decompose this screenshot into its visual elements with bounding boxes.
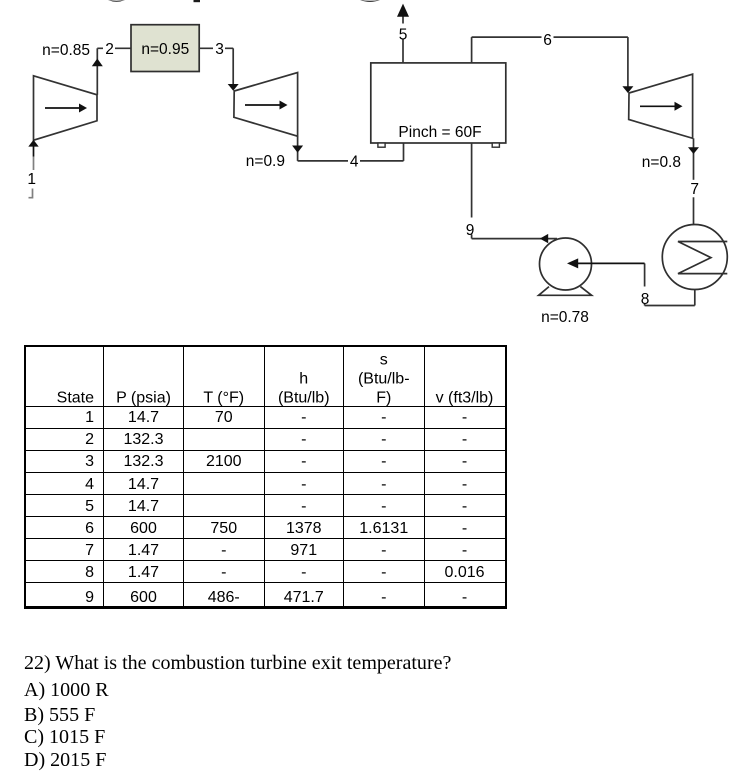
- wire stream 5: exhaust out top of HRSG: [397, 4, 409, 63]
- combustor U1: [131, 25, 199, 72]
- compressor C1: [34, 76, 98, 140]
- wire stream 8: condenser to pump: [567, 258, 695, 305]
- wire stream 4: gas turbine to HRSG: [292, 136, 403, 168]
- condenser HX1: [662, 225, 727, 290]
- svg-text:6: 6: [543, 32, 552, 49]
- cropped heading descenders: [108, 0, 380, 2]
- svg-text:9: 9: [466, 222, 475, 239]
- svg-text:Pinch = 60F: Pinch = 60F: [398, 124, 481, 141]
- svg-text:3: 3: [215, 41, 224, 58]
- pump P1: [540, 238, 592, 290]
- steam turbine internal flow arrow: [640, 102, 683, 111]
- pump stand: [539, 287, 592, 296]
- wire stream 9: pump to HRSG feedwater: [464, 143, 558, 243]
- svg-text:n=0.78: n=0.78: [541, 309, 589, 326]
- HRSG left foot: [378, 143, 385, 147]
- gas turbine T1: [234, 73, 298, 137]
- steam turbine T2: [629, 74, 693, 138]
- svg-text:8: 8: [641, 291, 650, 308]
- compressor C1 internal flow arrow: [45, 104, 87, 113]
- svg-text:7: 7: [690, 181, 699, 198]
- wire stream 7: steam turbine to condenser: [688, 138, 701, 224]
- wire stream 1 into compressor: [28, 140, 38, 170]
- svg-text:n=0.9: n=0.9: [246, 153, 285, 170]
- HRSG heat-recovery boiler box: [371, 63, 506, 143]
- wire stream 2: compressor to combustor: [92, 41, 131, 95]
- svg-text:4: 4: [350, 154, 359, 171]
- wire stream 6: HRSG to steam turbine: [472, 30, 634, 94]
- question block: [24, 0, 724, 1]
- svg-text:1: 1: [27, 171, 36, 188]
- svg-text:n=0.8: n=0.8: [642, 154, 681, 171]
- condenser coil zigzag: [678, 242, 727, 274]
- svg-text:n=0.85: n=0.85: [42, 42, 90, 59]
- svg-text:n=0.95: n=0.95: [141, 41, 189, 58]
- svg-text:2: 2: [105, 41, 114, 58]
- property table: [24, 345, 507, 609]
- stream 1 source corner mark: [29, 189, 33, 198]
- HRSG right foot: [492, 143, 499, 147]
- wire stream 3: combustor to gas turbine: [199, 41, 239, 91]
- gas turbine internal flow arrow: [245, 101, 288, 110]
- svg-text:5: 5: [399, 26, 408, 43]
